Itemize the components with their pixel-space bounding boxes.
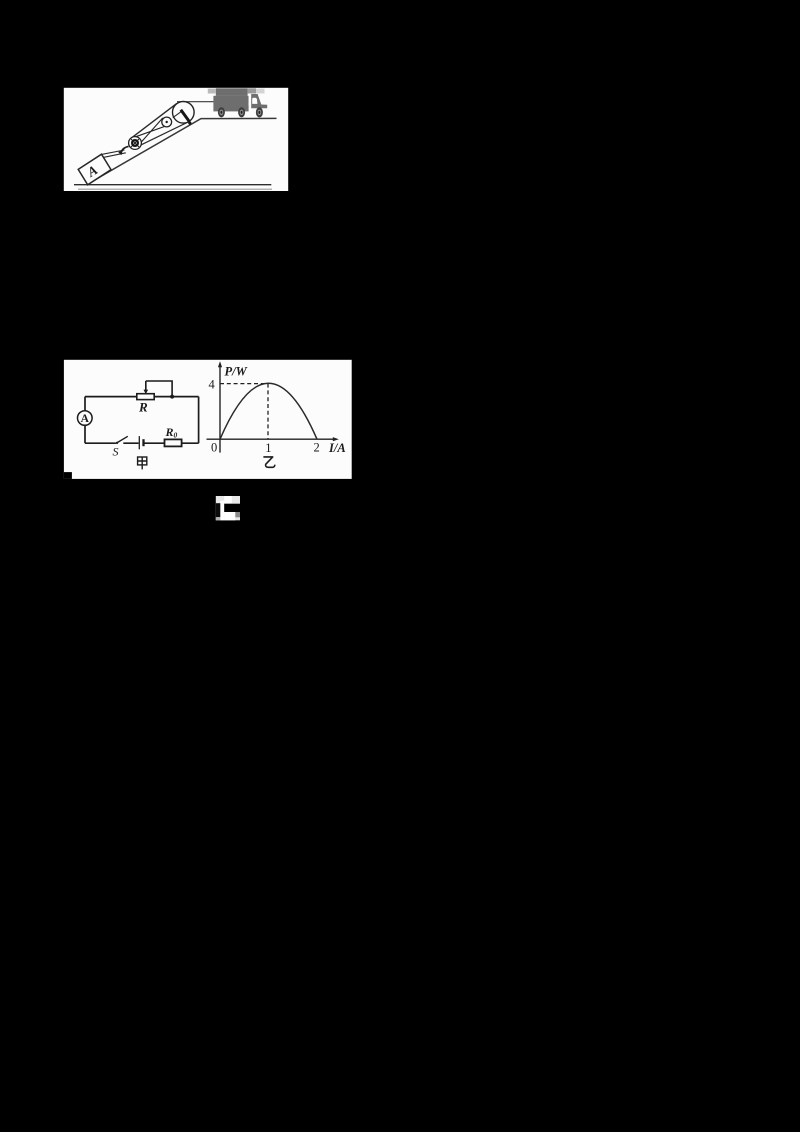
slider loop wire	[146, 381, 172, 395]
dashed guide horizontal	[220, 383, 268, 385]
ground line (lower)	[74, 184, 271, 186]
gray shadow line under ground	[78, 188, 272, 190]
wheel 1	[218, 107, 225, 117]
label yi (乙)	[263, 457, 275, 467]
block A	[78, 154, 111, 185]
conveyor frame connector from block (double line)	[102, 150, 126, 157]
svg-text:I/A: I/A	[328, 441, 346, 455]
graph x-axis	[207, 437, 339, 441]
graph y-axis	[218, 361, 222, 452]
truck body roof band	[216, 88, 248, 96]
wheel 2	[238, 107, 245, 117]
truck cab	[251, 94, 267, 108]
power curve	[220, 383, 317, 439]
truck white stripe	[249, 94, 251, 105]
svg-text:A: A	[81, 413, 90, 425]
idler pulley (mid)	[162, 117, 172, 127]
resistor R0	[165, 439, 182, 446]
figure 1 white panel	[64, 88, 288, 191]
truck roof light patch left	[208, 89, 216, 94]
truck roof light patch far right	[256, 89, 265, 94]
switch S	[116, 436, 128, 444]
battery	[139, 436, 143, 449]
drive belt crossed lines	[135, 118, 168, 144]
black notch bottom-left of panel	[64, 472, 72, 479]
conveyor belt top edge	[131, 103, 177, 138]
dark bar on head pulley	[181, 110, 192, 125]
bottom wire segments	[85, 442, 199, 444]
rheostat R	[137, 394, 154, 400]
svg-text:4: 4	[209, 378, 216, 392]
svg-text:1: 1	[265, 441, 271, 455]
conveyor belt lower edge	[133, 122, 189, 149]
right wire	[198, 397, 200, 444]
small glyph fragment	[216, 496, 240, 520]
svg-text:P/W: P/W	[225, 365, 248, 379]
rheostat slider arm	[144, 381, 149, 394]
svg-text:S: S	[113, 445, 119, 459]
truck roof patch right	[248, 88, 256, 93]
hill / incline surface	[88, 118, 277, 183]
truck window	[252, 98, 257, 104]
left wire upper	[84, 397, 86, 411]
ammeter A	[78, 411, 93, 426]
platform line to truck	[177, 101, 214, 103]
rotation arrow	[118, 146, 128, 155]
truck cargo box	[213, 96, 248, 112]
motor pulley	[129, 137, 142, 150]
svg-text:2: 2	[314, 440, 320, 454]
svg-text:R: R	[138, 400, 148, 415]
chord line inside head pulley	[173, 112, 181, 118]
head pulley (big)	[173, 102, 195, 124]
label jia (甲)	[138, 457, 147, 469]
figure 2 white panel	[64, 360, 352, 479]
wheel 3	[256, 107, 263, 117]
svg-text:0: 0	[211, 441, 217, 455]
junction node	[170, 395, 174, 399]
left wire lower	[84, 425, 86, 443]
top wire	[85, 396, 199, 398]
dashed guide vertical	[267, 384, 269, 439]
